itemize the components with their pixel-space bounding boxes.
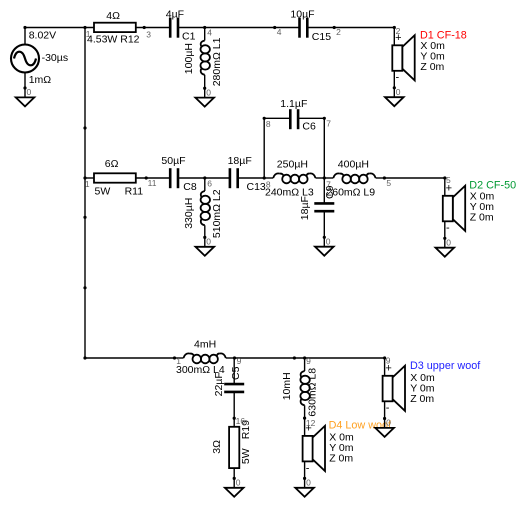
- wire bottom rail seg2: [235, 357, 385, 359]
- inductor L8: [300, 358, 309, 418]
- ground below D2: [436, 237, 455, 257]
- svg-text:1: 1: [86, 29, 91, 39]
- svg-text:7: 7: [326, 118, 331, 128]
- AC source V1: [11, 28, 39, 89]
- speaker D2: [443, 178, 465, 238]
- inductor L9: [324, 173, 384, 183]
- wire R19 top stub: [233, 418, 235, 427]
- wire middle rail seg3: [179, 177, 229, 179]
- speaker D1: [392, 28, 414, 88]
- svg-text:2: 2: [396, 26, 401, 36]
- svg-text:5W: 5W: [240, 448, 252, 464]
- svg-text:10µF: 10µF: [290, 8, 314, 20]
- svg-text:4: 4: [207, 27, 212, 37]
- svg-text:C1: C1: [182, 31, 196, 43]
- wire middle rail seg5: [384, 177, 444, 179]
- svg-text:9: 9: [386, 356, 391, 366]
- wire bypass vertical left (node 8): [263, 118, 265, 178]
- wire middle rail seg4: [239, 177, 265, 179]
- capacitor C1: [170, 18, 178, 38]
- svg-text:7: 7: [326, 179, 331, 189]
- svg-text:1.1µF: 1.1µF: [280, 98, 307, 110]
- svg-text:6Ω: 6Ω: [105, 158, 119, 170]
- svg-text:C8: C8: [183, 181, 197, 193]
- svg-text:9: 9: [237, 356, 242, 366]
- svg-text:5: 5: [386, 178, 391, 188]
- ground below C9: [315, 236, 334, 256]
- svg-text:10mH: 10mH: [281, 372, 293, 400]
- svg-text:50µF: 50µF: [161, 155, 185, 167]
- node dots bypass: [263, 117, 326, 120]
- inductor L2: [201, 178, 210, 238]
- resistor R12: [94, 23, 136, 32]
- wire top rail seg3: [179, 27, 299, 29]
- svg-text:-30µs: -30µs: [42, 52, 68, 64]
- wire C9 to ground: [323, 211, 325, 237]
- inductor L1: [201, 28, 210, 88]
- svg-text:Z 0m: Z 0m: [329, 453, 353, 465]
- wire top rail seg1: [25, 27, 94, 29]
- svg-text:16: 16: [236, 416, 246, 426]
- node dots top rail: [23, 26, 396, 29]
- ground below L1: [195, 87, 214, 107]
- svg-text:4: 4: [277, 27, 282, 37]
- ground below L2: [196, 236, 215, 256]
- svg-text:D3 upper woof: D3 upper woof: [410, 360, 481, 372]
- wire top rail seg4: [307, 27, 394, 29]
- capacitor C9: [314, 203, 334, 211]
- speaker D3: [383, 358, 405, 418]
- node dots left rail: [83, 126, 86, 359]
- svg-text:Z 0m: Z 0m: [410, 393, 434, 405]
- svg-text:1mΩ: 1mΩ: [29, 74, 52, 86]
- svg-text:11: 11: [148, 178, 157, 188]
- svg-text:1: 1: [176, 356, 181, 366]
- capacitor C8: [170, 168, 178, 188]
- svg-text:5: 5: [446, 175, 451, 185]
- ground below D4: [295, 477, 314, 497]
- svg-text:4Ω: 4Ω: [106, 10, 120, 22]
- svg-text:4µF: 4µF: [166, 8, 184, 20]
- svg-text:630mΩ L8: 630mΩ L8: [307, 368, 319, 417]
- svg-text:8: 8: [266, 180, 271, 190]
- svg-text:1: 1: [85, 179, 90, 189]
- svg-text:Z 0m: Z 0m: [420, 61, 444, 73]
- svg-text:3Ω: 3Ω: [211, 440, 223, 454]
- wire middle rail seg2: [136, 177, 169, 179]
- svg-text:5W: 5W: [95, 186, 111, 198]
- capacitor C15: [300, 18, 308, 38]
- wire middle rail seg1: [85, 177, 94, 179]
- svg-text:22µF: 22µF: [213, 372, 225, 396]
- svg-text:18µF: 18µF: [299, 196, 311, 220]
- svg-text:4.53W R12: 4.53W R12: [87, 34, 140, 46]
- wire R19 bottom stub: [233, 468, 235, 478]
- svg-text:8: 8: [266, 119, 271, 129]
- ground below D1: [385, 86, 404, 106]
- svg-text:250µH: 250µH: [277, 159, 308, 171]
- svg-text:330µH: 330µH: [183, 198, 195, 229]
- ground below D3: [375, 417, 394, 437]
- svg-text:C13: C13: [247, 181, 266, 193]
- wire C5 branch upper: [233, 358, 235, 384]
- svg-text:9: 9: [306, 356, 311, 366]
- svg-text:18µF: 18µF: [228, 155, 252, 167]
- svg-text:100µH: 100µH: [183, 43, 195, 74]
- node dots bottom rail: [173, 356, 386, 359]
- speaker D4: [303, 418, 325, 478]
- svg-text:3: 3: [146, 30, 151, 40]
- ground below R19: [225, 477, 244, 497]
- svg-text:4mH: 4mH: [194, 338, 216, 350]
- svg-text:C5: C5: [230, 366, 242, 380]
- wire bypass top seg2: [298, 117, 325, 119]
- wire top rail seg2: [136, 27, 169, 29]
- wire bottom rail seg1: [85, 357, 175, 359]
- svg-text:R11: R11: [125, 186, 144, 198]
- svg-text:C15: C15: [312, 31, 331, 43]
- wire C5 branch lower: [233, 392, 235, 418]
- svg-text:6: 6: [207, 178, 212, 188]
- inductor L4: [175, 353, 235, 363]
- svg-text:2: 2: [336, 27, 341, 37]
- resistor R19: [229, 427, 239, 468]
- svg-text:400µH: 400µH: [338, 159, 369, 171]
- svg-text:C6: C6: [302, 120, 316, 132]
- capacitor C6: [290, 109, 298, 129]
- capacitor C5: [224, 384, 244, 392]
- svg-text:Z 0m: Z 0m: [470, 211, 494, 223]
- node dots branch bottoms: [233, 417, 307, 420]
- svg-text:12: 12: [306, 418, 316, 428]
- capacitor C13: [230, 168, 238, 188]
- inductor L3: [264, 173, 324, 183]
- wire left rail: [84, 28, 86, 359]
- ground below source: [16, 86, 35, 106]
- svg-text:8.02V: 8.02V: [29, 30, 56, 42]
- wire node7 vertical down to C9: [323, 118, 325, 203]
- svg-text:510mΩ L2: 510mΩ L2: [211, 189, 223, 238]
- node dots middle rail: [145, 176, 447, 179]
- wire bypass top seg1: [264, 117, 291, 119]
- svg-text:280mΩ L1: 280mΩ L1: [211, 37, 223, 86]
- resistor R11: [94, 173, 136, 182]
